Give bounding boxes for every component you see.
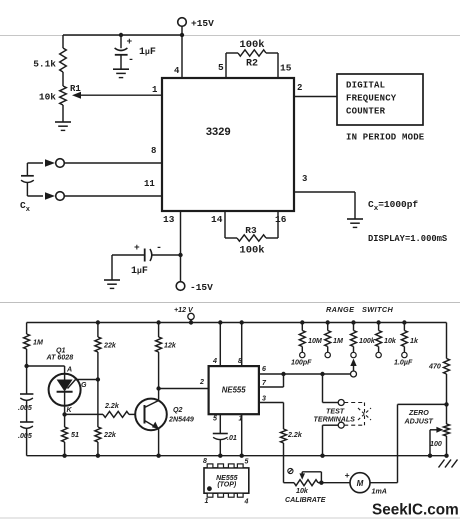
resistor 100k range xyxy=(351,320,376,352)
wire pin 2 NE555 xyxy=(159,378,209,389)
svg-text:100: 100 xyxy=(430,440,442,448)
junction test branch xyxy=(320,372,324,376)
svg-text:16: 16 xyxy=(275,214,287,225)
wire gate xyxy=(68,380,98,389)
svg-text:R3: R3 xyxy=(245,225,257,236)
pin label 14 xyxy=(211,214,223,225)
svg-text:10M: 10M xyxy=(308,337,323,345)
junction pin5 rail xyxy=(218,454,222,458)
resistor R2 100k xyxy=(226,39,278,78)
junction pin4 branch xyxy=(180,33,184,37)
resistor 12k xyxy=(156,323,177,389)
svg-text:1: 1 xyxy=(205,498,209,505)
ground under supply cap xyxy=(104,280,120,288)
wire pin 7 xyxy=(259,374,284,387)
chassis ground /77 xyxy=(439,460,458,468)
wire top supply rail xyxy=(63,34,182,36)
svg-text:K: K xyxy=(67,406,73,414)
svg-text:1mA: 1mA xyxy=(372,488,387,496)
svg-text:5.1k: 5.1k xyxy=(33,59,56,70)
svg-text:12k: 12k xyxy=(164,342,177,350)
wire pin 2 xyxy=(294,83,337,97)
power terminal +15V xyxy=(178,18,214,35)
wire cap to ground xyxy=(111,255,113,280)
text DISPLAY=1.000mS xyxy=(368,234,447,244)
svg-text:3: 3 xyxy=(262,395,266,403)
node anode junction xyxy=(24,364,28,368)
capacitor .005 lower xyxy=(18,422,33,456)
wire pin 5 cap xyxy=(213,414,220,433)
svg-text:8: 8 xyxy=(151,146,156,156)
svg-text:TERMINALS: TERMINALS xyxy=(314,416,356,424)
svg-text:R2: R2 xyxy=(246,59,258,70)
svg-text:Q2: Q2 xyxy=(173,406,183,414)
switch contact 1M xyxy=(325,352,330,357)
resistor 10M range xyxy=(299,320,323,352)
test terminal upper xyxy=(323,374,345,406)
svg-text:8: 8 xyxy=(203,458,207,465)
junction 51 ground rail xyxy=(62,454,66,458)
timer U2 NE555 xyxy=(209,366,259,414)
svg-text:22k: 22k xyxy=(103,431,117,439)
potentiometer 100 zero adjust xyxy=(430,404,450,455)
switch contact 10k xyxy=(376,352,381,357)
ground pin 3 xyxy=(347,219,363,227)
wire anode xyxy=(27,366,65,374)
svg-text:100k: 100k xyxy=(239,39,264,51)
svg-text:RANGE: RANGE xyxy=(326,305,355,314)
meter M 1mA xyxy=(345,470,387,496)
svg-text:M: M xyxy=(357,479,364,488)
capacitor .005 upper xyxy=(18,366,33,422)
svg-text:2: 2 xyxy=(297,83,302,93)
arrow wire to terminal 8 xyxy=(27,159,55,167)
resistor 22k lower xyxy=(95,427,117,456)
arrow wire to terminal 11 xyxy=(27,192,55,200)
wire pin 4 xyxy=(212,323,220,367)
svg-text:ZERO: ZERO xyxy=(408,409,429,417)
junction -15V cap xyxy=(178,253,182,257)
svg-text:2N5449: 2N5449 xyxy=(168,416,194,424)
text Cx=1000pf xyxy=(368,199,418,213)
block digital frequency counter xyxy=(337,74,423,125)
junction 22k rail xyxy=(96,320,100,324)
junction calibrate wiper xyxy=(319,481,323,485)
resistor 1k range xyxy=(401,320,419,352)
watermark SeekIC.com xyxy=(372,502,459,519)
resistor 51 xyxy=(62,414,79,455)
svg-text:.005: .005 xyxy=(18,432,33,440)
svg-text:51: 51 xyxy=(71,431,79,439)
svg-text:G: G xyxy=(81,381,87,389)
svg-text:2.2k: 2.2k xyxy=(287,431,303,439)
svg-text:13: 13 xyxy=(163,214,175,225)
svg-text:Cx: Cx xyxy=(20,200,31,214)
svg-text:10k: 10k xyxy=(384,337,397,345)
resistor 1M xyxy=(24,323,44,367)
resistor R3 100k xyxy=(225,211,278,257)
resistor 22k upper xyxy=(95,323,117,380)
svg-text:SWITCH: SWITCH xyxy=(362,305,394,314)
wiper 10k calibrate xyxy=(299,472,321,483)
svg-text:(TOP): (TOP) xyxy=(217,481,237,488)
svg-text:5: 5 xyxy=(245,459,249,466)
potentiometer 10k calibrate xyxy=(285,480,326,504)
svg-text:1µF: 1µF xyxy=(139,47,156,58)
switch wiper arrow xyxy=(350,359,356,378)
wiper 100 pot xyxy=(430,427,443,456)
wire output to calibrate xyxy=(284,443,295,483)
wire ground bottom rail xyxy=(27,455,447,457)
junction 100 rail xyxy=(444,454,448,458)
wire gate branch crossover xyxy=(97,380,99,428)
svg-text:+15V: +15V xyxy=(191,18,214,29)
text TEST TERMINALS xyxy=(314,408,356,424)
power terminal -15V xyxy=(176,282,213,293)
test terminal lower xyxy=(323,422,345,456)
svg-text:AT 6028: AT 6028 xyxy=(46,354,74,362)
svg-text:4: 4 xyxy=(212,357,217,365)
svg-text:10k: 10k xyxy=(39,92,56,103)
ground under R1 xyxy=(55,122,71,130)
wire pin 3 xyxy=(294,174,355,219)
svg-text:6: 6 xyxy=(262,365,266,373)
capacitor Cx unknown xyxy=(20,163,34,214)
svg-text:-15V: -15V xyxy=(190,282,213,293)
wiper arrow wire pin 1 xyxy=(72,85,162,99)
junction gate node xyxy=(96,377,100,381)
svg-text:1k: 1k xyxy=(410,337,419,345)
svg-text:FREQUENCY: FREQUENCY xyxy=(346,94,397,104)
svg-text:IN PERIOD MODE: IN PERIOD MODE xyxy=(346,133,425,143)
text IN PERIOD MODE xyxy=(346,133,425,143)
transistor Q1 AT 6028 xyxy=(46,347,88,415)
svg-text:22k: 22k xyxy=(103,342,117,350)
junction pin1 rail xyxy=(240,454,244,458)
junction pin6 pin7 xyxy=(281,372,285,376)
svg-text:DIGITAL: DIGITAL xyxy=(346,81,385,91)
junction collector node xyxy=(156,386,160,390)
svg-text:TEST: TEST xyxy=(326,408,345,416)
svg-text:CALIBRATE: CALIBRATE xyxy=(285,496,326,504)
pin label 16 xyxy=(275,214,287,225)
junction zero adjust node xyxy=(444,402,448,406)
svg-text:COUNTER: COUNTER xyxy=(346,107,386,117)
input terminal pin 11 xyxy=(56,179,162,200)
wire pin 8 xyxy=(238,323,242,367)
junction 22k ground rail xyxy=(96,454,100,458)
svg-text:2: 2 xyxy=(199,378,204,386)
switch contact 10M xyxy=(300,352,305,357)
text RANGE SWITCH xyxy=(326,305,394,314)
svg-text:2.2k: 2.2k xyxy=(104,402,120,410)
svg-text:5: 5 xyxy=(218,62,224,73)
switch contact 1k xyxy=(402,352,407,357)
junction pin8 rail xyxy=(240,320,244,324)
switch contact 100k xyxy=(351,352,356,357)
svg-text:.01: .01 xyxy=(227,434,237,442)
resistor 5.1k xyxy=(33,35,66,86)
junction cap branch xyxy=(119,33,123,37)
svg-text:SeekIC.com: SeekIC.com xyxy=(372,502,459,519)
svg-text:-: - xyxy=(128,55,134,66)
svg-text:+: + xyxy=(134,242,140,253)
svg-text:-: - xyxy=(156,243,162,254)
capacitor 1µF positive xyxy=(115,35,156,69)
pin label 15 xyxy=(280,63,292,74)
power terminal +12V xyxy=(174,306,194,325)
wire pin 1 xyxy=(239,414,243,456)
svg-text:5: 5 xyxy=(213,415,218,423)
wire pin 3 xyxy=(259,395,284,403)
wire pin 4 xyxy=(174,35,182,78)
wire meter to zero adjust xyxy=(370,482,398,484)
wire +12V top rail xyxy=(27,322,447,324)
junction test rail xyxy=(320,454,324,458)
svg-text:4: 4 xyxy=(244,499,249,506)
wire calibrate to meter xyxy=(321,482,350,484)
potentiometer R1 10k xyxy=(39,84,82,122)
junction 12k rail xyxy=(156,320,160,324)
resistor 470 xyxy=(428,323,450,405)
svg-text:11: 11 xyxy=(144,179,155,189)
svg-text:1.0µF: 1.0µF xyxy=(394,359,413,367)
wire collector xyxy=(158,389,160,401)
svg-text:.005: .005 xyxy=(18,404,33,412)
svg-text:A: A xyxy=(66,366,72,374)
svg-text:10k: 10k xyxy=(296,487,309,495)
text ZERO ADJUST xyxy=(404,409,434,426)
pin label 5 xyxy=(218,62,224,73)
svg-text:NE555: NE555 xyxy=(222,386,247,395)
wire cathode node xyxy=(64,406,66,415)
ground under 1µF cap xyxy=(113,69,129,77)
svg-text:+: + xyxy=(127,36,133,47)
svg-text:7: 7 xyxy=(262,379,267,387)
svg-text:470: 470 xyxy=(428,363,441,371)
junction wiper rail xyxy=(428,454,432,458)
resistor 10k range xyxy=(376,320,397,352)
junction pin4 rail xyxy=(218,320,222,324)
svg-text:100k: 100k xyxy=(239,245,264,257)
transistor Q2 2N5449 xyxy=(135,399,194,431)
svg-text:ADJUST: ADJUST xyxy=(404,418,434,426)
text 100pF xyxy=(291,359,312,367)
resistor 2.2k output xyxy=(281,403,303,444)
dashed test connection xyxy=(344,403,371,426)
junction cathode node xyxy=(62,412,66,416)
wire pin 13 xyxy=(163,211,181,282)
svg-text:15: 15 xyxy=(280,63,292,74)
svg-text:1: 1 xyxy=(152,85,158,95)
capacitor .01 xyxy=(213,434,237,456)
svg-text:100k: 100k xyxy=(359,337,376,345)
resistor 2.2k base xyxy=(65,402,136,417)
wire emitter xyxy=(158,429,160,456)
adjust symbol xyxy=(288,468,293,473)
svg-text:1: 1 xyxy=(239,415,243,423)
wire pin 6 xyxy=(259,365,351,374)
text 1.0µF xyxy=(394,359,413,367)
op-amp U1 3329 xyxy=(162,78,294,211)
svg-text:3329: 3329 xyxy=(206,127,231,139)
svg-text:8: 8 xyxy=(238,357,242,365)
svg-text:DISPLAY=1.000mS: DISPLAY=1.000mS xyxy=(368,234,447,244)
DIP package NE555 top view xyxy=(203,458,249,506)
svg-text:100pF: 100pF xyxy=(291,359,312,367)
svg-text:Cx=1000pf: Cx=1000pf xyxy=(368,199,418,213)
svg-text:1M: 1M xyxy=(333,337,344,345)
svg-text:1M: 1M xyxy=(33,339,44,347)
svg-text:+: + xyxy=(345,470,350,480)
svg-text:4: 4 xyxy=(174,66,180,76)
svg-text:1µF: 1µF xyxy=(131,266,148,277)
svg-text:14: 14 xyxy=(211,214,223,225)
resistor 1M range xyxy=(325,320,344,352)
capacitor 1µF negative supply xyxy=(112,242,181,277)
input terminal pin 8 xyxy=(56,146,162,167)
junction emitter rail xyxy=(156,454,160,458)
svg-text:3: 3 xyxy=(302,174,307,184)
wire zero adjust top xyxy=(398,404,447,482)
